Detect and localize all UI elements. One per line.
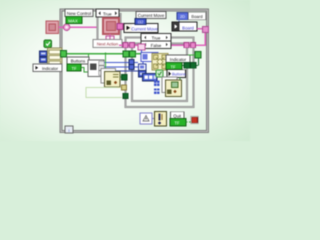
svg-text:Board: Board <box>191 14 203 19</box>
blue tunnels on case 3 left border <box>129 60 134 65</box>
svg-text:TF: TF <box>174 121 180 126</box>
svg-text:Indicator: Indicator <box>42 66 59 71</box>
svg-text:True: True <box>103 12 112 17</box>
loop condition terminal (stop) <box>191 116 199 124</box>
wire: wait icon to dialog icon (violet) <box>152 118 155 120</box>
label: Next Action <box>93 40 122 48</box>
wire: index array output 1 (blue) <box>104 61 138 63</box>
enum constant 2 (inside case 3, lower) <box>143 74 158 82</box>
svg-text:Next Action: Next Action <box>97 42 119 47</box>
wire: down right side then left into cases (magenta) <box>119 33 205 45</box>
svg-text:MAX: MAX <box>68 18 78 23</box>
wire: Board local variable to loop tunnel (magenta) <box>197 28 203 30</box>
case structure 2 (outer right) <box>126 38 194 108</box>
wire: subVI output 2 loops around (pale yellow-green) <box>86 88 122 98</box>
array terminal Board (blue icon) <box>177 12 188 19</box>
iteration terminal i <box>65 126 73 133</box>
enum constants stack (left group, blue) <box>40 51 48 63</box>
wire: subVI output 1 (green) <box>120 76 123 78</box>
green check icon (inside case 3) <box>156 70 163 77</box>
svg-text:TF: TF <box>170 64 176 69</box>
cluster constant (pink square inside case 1) <box>103 18 119 34</box>
wire: enum1 to conversion stack (blue) <box>142 62 144 65</box>
select function icon (yellow X) <box>152 54 168 71</box>
local variable: Current Move <box>124 24 158 33</box>
case structure 1 <box>98 14 121 46</box>
blue connector dot grids (left of subVI 2) <box>154 81 160 87</box>
label: Current Move (above) <box>136 12 166 19</box>
svg-text:Board: Board <box>182 25 194 30</box>
svg-text:False: False <box>151 43 162 48</box>
label: Board <box>188 12 206 19</box>
while loop <box>61 10 208 132</box>
svg-text:Indicator: Indicator <box>170 57 187 62</box>
case 1 selector label: True <box>96 9 119 17</box>
wire: cluster constant to case 1 right tunnel (magenta) <box>119 26 124 28</box>
green X tunnel (right of case 2) <box>188 52 201 66</box>
svg-text:New Control: New Control <box>67 11 91 16</box>
tunnel: dark green on case 2 left border (upper) <box>122 74 127 79</box>
wire: green branch down to subVI <box>105 54 107 70</box>
wire: cluster control to case 1 (magenta) <box>59 26 98 28</box>
tunnel on loop left border (green X) <box>61 51 67 57</box>
dark green tunnels on case left borders (bottom) <box>123 93 128 98</box>
tunnel on loop left border (pink ring) <box>63 24 70 31</box>
subVI icon 2 (inside case 3, yellow/white pair) <box>162 77 182 97</box>
wait (ms) icon (bottom row) <box>140 113 152 124</box>
svg-text:Current Move: Current Move <box>131 27 158 32</box>
wire: left group to cases (green, long) <box>62 53 123 55</box>
svg-text:I32: I32 <box>138 19 144 24</box>
svg-text:Current Move: Current Move <box>138 13 165 18</box>
case 3 selector label: False <box>141 41 171 49</box>
wire: Quit to stop terminal (dashed green) <box>186 121 191 123</box>
wire: index array output 3 (dark blue) <box>104 70 138 72</box>
boolean constant (green, inside case 3) <box>166 63 182 70</box>
local variable: Indicator (left side) <box>33 64 62 72</box>
cluster control (pink square, top-left) <box>46 21 59 34</box>
wire: green branch down to index array <box>87 54 89 60</box>
enum terminal Current Move (blue) <box>135 19 146 25</box>
svg-text:2D: 2D <box>180 14 185 19</box>
label: Buttons <box>67 57 89 64</box>
enum constant 1 (inside case 3) <box>141 53 158 62</box>
boolean terminal Quit (green) <box>170 119 186 127</box>
svg-text:Buttons: Buttons <box>172 72 186 77</box>
wire: Buttons local var down to subVI 2 (green) <box>179 77 181 80</box>
unbundle node (pink, below cluster) <box>106 34 114 43</box>
svg-text:True: True <box>152 36 161 41</box>
tunnel: yellow on case 2 left border <box>122 85 127 90</box>
index array function <box>88 60 104 77</box>
local variable: Board <box>172 22 197 31</box>
dialog subVI icon (bottom row, yellow) <box>155 112 167 127</box>
svg-text:TF: TF <box>71 66 77 71</box>
wire: Board terminal to local variable (blue) <box>178 20 180 22</box>
svg-text:Buttons: Buttons <box>71 59 86 64</box>
small green ok icon (left group) <box>44 40 52 48</box>
case structure 3 (inner right) <box>132 44 187 102</box>
label: Indicator (inside case 3) <box>166 55 190 63</box>
tunnel on loop right border (pink X) <box>202 26 208 32</box>
wire: green constant to right tunnels (dark green) <box>182 65 198 67</box>
svg-text:Quit: Quit <box>173 113 182 118</box>
wire: index array output 2 (blue) <box>104 66 138 68</box>
boolean terminal New Control (green) <box>66 17 82 24</box>
case 2 selector label: True <box>141 34 171 42</box>
wire: Buttons terminal to index array (green) <box>81 68 88 73</box>
junction: green wire down to subVI <box>104 53 106 55</box>
local variable: Buttons (inside case 3) <box>167 70 186 78</box>
pink tunnels on case borders at y=45 <box>123 43 128 48</box>
wire: green inside case 3 <box>136 53 154 55</box>
dark green tunnels on case right borders <box>184 62 190 68</box>
subVI icon (lower left, yellow/white pair) <box>101 69 120 88</box>
label: Quit <box>171 112 185 119</box>
boolean array terminal Buttons (green) <box>67 64 81 71</box>
green tunnels on case 2/3 left borders <box>123 51 129 57</box>
node on pink wire inside case 3 <box>138 44 145 53</box>
conversion nodes stack (blue) <box>139 64 147 77</box>
property node icon (left group, cream) <box>48 48 63 66</box>
label: New Control <box>65 9 93 17</box>
svg-text:i: i <box>69 128 70 133</box>
tunnel on case 1 right border (pink X) <box>117 24 123 30</box>
